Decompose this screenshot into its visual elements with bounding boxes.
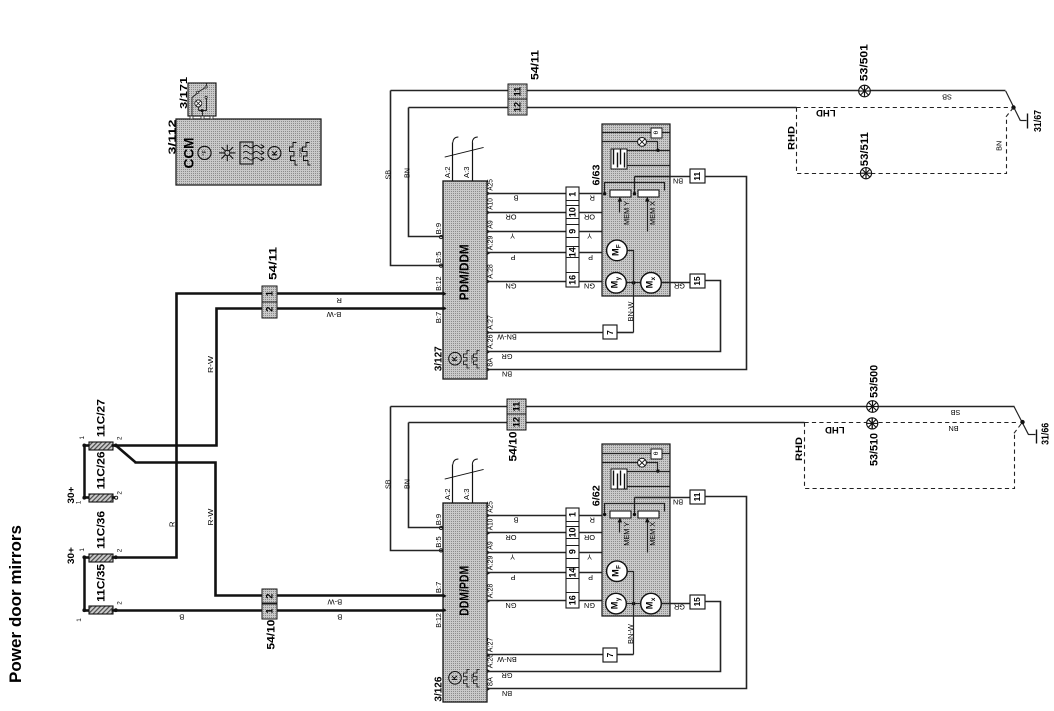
icon K diagnostic circle: [268, 147, 281, 160]
wire P : A:29 to connector strip: [487, 252, 567, 254]
motor M F (fold): [607, 561, 628, 582]
svg-text:Y: Y: [587, 232, 592, 241]
mirror assembly 6/63 box: [602, 124, 670, 296]
svg-text:1: 1: [264, 291, 274, 296]
wire BN : B:9 riser: [409, 108, 443, 237]
mirror heater element: [611, 149, 627, 169]
svg-text:K: K: [270, 150, 279, 156]
svg-text:SB: SB: [942, 93, 952, 102]
wire P : A:29 to connector strip: [487, 572, 567, 574]
wire R-W/B-W : 11C/27 pin2 diagonal: [116, 445, 136, 462]
svg-text:A:26: A:26: [486, 654, 495, 669]
svg-text:B:5: B:5: [434, 252, 443, 264]
svg-text:GN: GN: [584, 601, 595, 610]
svg-text:A10: A10: [486, 519, 495, 531]
connector 54/10 (pins 2|1): [262, 589, 277, 603]
svg-text:9: 9: [567, 229, 577, 234]
pin B:12: [443, 608, 447, 613]
svg-text:B:9: B:9: [434, 514, 443, 526]
svg-text:M: M: [645, 601, 655, 609]
svg-text:MEM X: MEM X: [648, 522, 657, 546]
svg-text:OR: OR: [584, 533, 595, 542]
R bracket over potentiometers: [605, 183, 665, 194]
svg-text:SB: SB: [383, 170, 392, 180]
svg-text:B-W: B-W: [326, 310, 342, 319]
pin A:29: [487, 251, 491, 256]
wire BN-W : M F / common return: [628, 251, 634, 333]
svg-text:A25: A25: [486, 179, 495, 191]
svg-text:A:27: A:27: [486, 315, 495, 330]
svg-text:A:26: A:26: [486, 335, 495, 350]
svg-text:y: y: [615, 276, 622, 280]
svg-text:MEM Y: MEM Y: [622, 522, 631, 546]
wire: M y to M x common: [627, 603, 641, 605]
svg-text:CAN: CAN: [470, 674, 474, 682]
svg-text:2: 2: [116, 436, 123, 440]
svg-text:BN: BN: [502, 689, 512, 698]
svg-text:A25: A25: [486, 501, 495, 513]
svg-text:31/67: 31/67: [1033, 110, 1044, 132]
wire GR : M x to pin 15: [662, 282, 690, 284]
MEM X wiper: [647, 200, 649, 232]
pin A10: [487, 210, 491, 215]
svg-text:P: P: [588, 573, 593, 582]
svg-text:SB: SB: [383, 479, 392, 489]
wire Y : strip to mirror: [579, 231, 648, 233]
svg-text:54/11: 54/11: [530, 50, 542, 80]
pin A:28: [487, 279, 491, 284]
BN centre tap: [634, 177, 636, 194]
svg-text:B:7: B:7: [434, 582, 443, 594]
svg-text:6/62: 6/62: [590, 485, 602, 506]
svg-text:GR: GR: [674, 602, 685, 611]
svg-text:B:7: B:7: [434, 312, 443, 324]
pin A:26: [487, 350, 491, 355]
fuse pin junctions: [82, 444, 86, 448]
icon CAN bus pulses: [290, 143, 298, 166]
svg-text:BN: BN: [673, 177, 683, 186]
connector 54/10 (pins 12|11): [507, 399, 526, 414]
svg-text:53/501: 53/501: [859, 44, 871, 81]
svg-text:CAN: CAN: [298, 148, 303, 157]
svg-text:R: R: [590, 193, 595, 202]
CAN bus stub pin A:2: [452, 143, 454, 181]
svg-text:PDM/DDM: PDM/DDM: [458, 244, 472, 300]
wire BN-W : pin 7 to common: [618, 332, 634, 334]
svg-text:B:5: B:5: [434, 536, 443, 548]
CAN bus stub pin A:3: [472, 143, 474, 181]
svg-text:B: B: [513, 516, 518, 525]
svg-text:BN: BN: [403, 168, 412, 178]
svg-text:2: 2: [116, 491, 123, 495]
mirror heater indicator lamp: [638, 138, 647, 147]
pin 8A: [487, 687, 491, 692]
svg-text:3/171: 3/171: [178, 77, 190, 109]
mirror pin 11: [690, 169, 705, 183]
splice 53/501: [859, 85, 871, 97]
BN centre tap: [634, 498, 636, 515]
pin A:26: [487, 669, 491, 674]
wire R-W/B-W : 11C/27 pin2 to 54/11 pin2 to PDM B:7: [116, 309, 443, 446]
thermostat box: [651, 449, 662, 459]
svg-text:A9: A9: [486, 220, 495, 229]
svg-text:12: 12: [511, 417, 521, 427]
pin A:29: [487, 571, 491, 576]
wire OR : strip to mirror: [579, 532, 620, 534]
wire bus 11C/36 pin1 - 11C/35 pin1: [83, 558, 86, 611]
mirror heater element: [611, 469, 627, 489]
svg-text:Y: Y: [510, 553, 515, 562]
wire: heater top row: [628, 150, 670, 152]
splice 53/500: [867, 401, 879, 413]
svg-text:10: 10: [567, 527, 577, 537]
svg-text:10: 10: [567, 207, 577, 217]
svg-text:30+: 30+: [66, 547, 77, 564]
wire BN : B:9 riser: [409, 423, 443, 528]
svg-text:11C/27: 11C/27: [96, 399, 108, 437]
svg-text:R: R: [590, 516, 595, 525]
svg-text:K: K: [452, 356, 459, 361]
icon temperature gauge (deg F): [198, 146, 211, 159]
wire BN : 8A loop to pin 11: [487, 497, 747, 689]
wire BN-W : pin 7 to common: [618, 654, 634, 656]
svg-text:B:12: B:12: [434, 276, 443, 291]
wire BN-W : M F / common return: [628, 572, 634, 655]
CAN bus stub pin A:3: [472, 465, 474, 503]
svg-text:A:2: A:2: [443, 489, 452, 501]
svg-text:P: P: [588, 253, 593, 262]
mirror pin 11: [690, 490, 705, 504]
wire: lamp row: [602, 141, 638, 143]
pin A9: [487, 550, 491, 555]
pin B:7: [443, 594, 447, 599]
wire BN dashed (RHD) diagonal: [1006, 108, 1014, 117]
wire B : A25 to connector strip: [487, 193, 567, 195]
MEM Y wiper: [619, 521, 621, 533]
R bracket over potentiometers: [605, 504, 665, 515]
svg-text:2: 2: [265, 594, 275, 599]
svg-text:3/127: 3/127: [433, 346, 445, 371]
mirror pin 7: [603, 325, 617, 339]
svg-text:11C/35: 11C/35: [96, 564, 108, 602]
svg-text:7: 7: [605, 330, 615, 335]
wire to ground diagonal: [1006, 91, 1021, 121]
inline connector strip (mirror connector pins 1/10/9/14/16): [566, 508, 579, 608]
svg-text:P: P: [510, 253, 515, 262]
wire SB : B:5 riser: [391, 407, 443, 551]
wire BN dashed (RHD): [805, 423, 1015, 489]
svg-text:A:28: A:28: [486, 264, 495, 279]
svg-text:14: 14: [567, 247, 577, 257]
twisted pair slash: [445, 147, 484, 157]
svg-text:A:2: A:2: [443, 167, 452, 179]
mirror pin 7: [603, 648, 617, 662]
wire GN : strip to mirror: [579, 281, 606, 283]
svg-text:BN-W: BN-W: [497, 333, 517, 342]
pin B:9: [439, 526, 442, 529]
svg-text:GR: GR: [502, 671, 513, 680]
wire P : strip to mirror: [579, 572, 607, 574]
svg-text:11: 11: [692, 492, 702, 501]
svg-text:B-W: B-W: [327, 598, 343, 607]
wire: thermostat row: [602, 453, 652, 455]
svg-text:54/11: 54/11: [267, 247, 279, 280]
wire B : 11C/35 pin2 to 54/10 pin1 to DDM B:12: [116, 609, 443, 612]
svg-text:GN: GN: [584, 282, 595, 291]
motor M y (vertical): [606, 273, 627, 294]
wire OR : A10 to connector strip: [487, 212, 567, 214]
svg-text:15: 15: [692, 597, 702, 607]
wire OR : A10 to connector strip: [487, 532, 567, 534]
pin A:27: [487, 330, 491, 335]
connector 54/11 (pins 2|1): [262, 286, 277, 302]
wire Y : A9 to connector strip: [487, 552, 567, 554]
wire BN-W : A:27 to pin 7: [487, 654, 604, 656]
svg-text:RHD: RHD: [794, 437, 805, 461]
svg-text:31/66: 31/66: [1040, 423, 1051, 445]
pin A25: [487, 513, 491, 518]
MEM Y potentiometer: [610, 511, 631, 518]
icon heated rear window: [240, 142, 253, 164]
wire Y : strip to mirror: [579, 552, 648, 554]
motor M x (horizontal): [641, 593, 662, 614]
svg-text:54/10: 54/10: [508, 432, 520, 462]
mirror pin 15: [690, 274, 705, 288]
svg-text:7: 7: [605, 652, 615, 657]
svg-text:SB: SB: [951, 408, 961, 417]
svg-text:DDM/PDM: DDM/PDM: [458, 566, 472, 616]
svg-text:11C/36: 11C/36: [96, 511, 108, 549]
svg-text:2: 2: [264, 307, 274, 312]
pin A9: [487, 229, 491, 234]
svg-text:30+: 30+: [66, 486, 77, 503]
svg-text:11: 11: [513, 87, 523, 97]
connector 54/11 (pins 12|11): [508, 84, 527, 99]
svg-text:3/112: 3/112: [166, 119, 178, 154]
module PDM/DDM 3/127 box: [443, 181, 487, 379]
svg-text:Y: Y: [510, 232, 515, 241]
fuse 11C/36: [89, 554, 113, 562]
svg-text:2: 2: [116, 548, 123, 552]
pin B:7: [443, 306, 447, 311]
svg-text:2: 2: [116, 601, 123, 605]
svg-text:CAN: CAN: [470, 354, 474, 362]
MEM X wiper: [647, 521, 649, 553]
wire: lamp row: [602, 462, 638, 464]
wire BN trunk: [409, 107, 797, 109]
wire: heater bottom row: [628, 486, 670, 488]
module DDM/PDM 3/126 box: [443, 503, 487, 702]
svg-text:A:3: A:3: [462, 489, 471, 501]
svg-text:16: 16: [567, 595, 577, 605]
junction at ground: [1020, 420, 1024, 424]
wire SB trunk: [391, 406, 1015, 408]
svg-text:BN-W: BN-W: [497, 655, 517, 664]
svg-text:RHD: RHD: [786, 126, 797, 150]
motor M x (horizontal): [641, 273, 662, 294]
wire BN dashed (RHD): [797, 108, 1007, 174]
svg-text:9: 9: [567, 549, 577, 554]
svg-text:x: x: [650, 597, 657, 601]
svg-text:53/510: 53/510: [869, 433, 881, 466]
wire BN dashed (LHD): [797, 107, 1011, 109]
wire BN : 8A loop to pin 11: [487, 177, 747, 370]
module CCM 3/112 box: [176, 119, 321, 185]
wire GN : strip to mirror: [579, 600, 606, 602]
svg-text:θ: θ: [653, 130, 660, 134]
motor M F (fold): [607, 240, 628, 261]
svg-text:θ: θ: [653, 451, 660, 455]
svg-text:K: K: [452, 675, 459, 680]
svg-text:A:3: A:3: [462, 167, 471, 179]
icon sun (auto climate): [219, 145, 235, 161]
wire BN : centre tap to pin 11: [635, 497, 690, 499]
svg-text:1: 1: [79, 548, 86, 552]
MEM X potentiometer: [638, 511, 659, 518]
svg-text:53/500: 53/500: [869, 365, 881, 398]
ground 31/67: [1027, 114, 1029, 129]
svg-text:OR: OR: [506, 213, 517, 222]
wire BN-W : A:27 to pin 7: [487, 332, 604, 334]
svg-text:12: 12: [513, 102, 523, 112]
wire SB : B:5 riser: [391, 91, 443, 266]
svg-text:8A: 8A: [486, 677, 495, 686]
wire bus 11C/27 pin1 - 11C/26 pin1: [83, 446, 86, 498]
svg-text:°F: °F: [202, 150, 208, 156]
svg-text:y: y: [615, 597, 622, 601]
svg-text:A9: A9: [486, 541, 495, 550]
svg-text:16: 16: [567, 275, 577, 285]
svg-text:A:29: A:29: [486, 556, 495, 571]
svg-text:B: B: [337, 613, 342, 622]
svg-text:6/63: 6/63: [590, 164, 602, 185]
pin B:5: [439, 264, 442, 267]
pin A:28: [487, 599, 491, 604]
svg-text:A10: A10: [486, 198, 495, 210]
svg-text:A:28: A:28: [486, 584, 495, 599]
fuse 11C/26: [89, 494, 113, 502]
splice 53/511: [860, 168, 871, 179]
wire BN dashed (RHD) diagonal: [1014, 422, 1023, 433]
mirror heater indicator lamp: [638, 458, 647, 467]
MEM X potentiometer: [638, 190, 659, 197]
wire B : A25 to connector strip: [487, 515, 567, 517]
svg-text:R-W: R-W: [206, 355, 215, 373]
wire GN : A:28 to connector strip: [487, 600, 567, 602]
svg-text:M: M: [645, 280, 655, 288]
svg-text:BN: BN: [673, 497, 683, 506]
wire GN : A:28 to connector strip: [487, 281, 567, 283]
svg-text:BN-W: BN-W: [626, 301, 635, 321]
junction at ground: [1011, 105, 1015, 109]
svg-text:BN: BN: [403, 479, 412, 489]
twisted pair slash: [445, 469, 484, 479]
svg-text:1: 1: [265, 608, 275, 613]
svg-text:BN: BN: [502, 370, 512, 379]
inline connector strip (mirror connector pins 1/10/9/14/16): [566, 187, 579, 287]
pin B:9: [439, 235, 442, 238]
svg-text:LHD: LHD: [816, 107, 836, 118]
svg-text:GN: GN: [506, 282, 517, 291]
svg-text:Power door mirrors: Power door mirrors: [7, 525, 25, 683]
svg-text:GR: GR: [502, 352, 513, 361]
svg-text:14: 14: [567, 568, 577, 578]
svg-text:A:29: A:29: [486, 236, 495, 251]
module K/CAN icon: [449, 352, 462, 365]
wire BN trunk: [409, 422, 805, 424]
svg-text:1: 1: [76, 618, 83, 622]
svg-text:CCM: CCM: [182, 138, 197, 169]
wire R-W/B-W : to 54/10 pin2 to DDM B:7: [135, 463, 443, 596]
MEM Y wiper: [619, 200, 621, 213]
wire: heater bottom row: [628, 165, 670, 167]
motor M y (vertical): [606, 593, 627, 614]
svg-text:F: F: [616, 565, 623, 569]
ground 31/66: [1036, 430, 1038, 444]
fuse 11C/26 pin 2 open end: [115, 496, 118, 499]
fuse 11C/27: [89, 442, 113, 450]
svg-text:Y: Y: [587, 553, 592, 562]
svg-text:B: B: [179, 612, 184, 621]
3/171 pins: [190, 116, 193, 119]
svg-text:GR: GR: [674, 282, 685, 291]
wire R : 11C/36 pin2 to 54/11 pin1 to PDM B:12: [116, 294, 443, 558]
svg-text:LHD: LHD: [825, 424, 845, 435]
wire BN dashed (LHD): [805, 422, 1019, 424]
svg-text:F: F: [616, 244, 623, 248]
svg-text:M: M: [610, 280, 620, 288]
mirror assembly 6/62 box: [602, 444, 670, 616]
pin A:27: [487, 653, 491, 658]
wire GR : M x to pin 15: [662, 603, 690, 605]
wire GR : A:26 loop to pin 15: [487, 602, 721, 672]
svg-text:B:12: B:12: [434, 613, 443, 628]
svg-text:3/126: 3/126: [433, 676, 445, 701]
svg-text:OR: OR: [506, 533, 517, 542]
svg-text:M: M: [610, 569, 620, 577]
wire to ground diagonal: [1014, 407, 1029, 435]
svg-text:BN: BN: [948, 424, 958, 433]
wire R : strip to mirror: [579, 193, 605, 195]
svg-text:OR: OR: [584, 213, 595, 222]
svg-text:MEM X: MEM X: [648, 201, 657, 225]
3/171 indicator lamp: [195, 100, 202, 107]
wire BN : centre tap to pin 11: [635, 176, 690, 178]
wire P : strip to mirror: [579, 252, 607, 254]
MEM Y potentiometer: [610, 190, 631, 197]
svg-text:1: 1: [567, 512, 577, 517]
svg-text:11C/26: 11C/26: [96, 451, 108, 489]
pin B:12: [443, 291, 447, 296]
svg-text:15: 15: [692, 276, 702, 286]
fuse 11C/35: [89, 606, 113, 614]
svg-text:B: B: [513, 193, 518, 202]
wire: heater top row: [628, 471, 670, 473]
wire GR : A:26 loop to pin 15: [487, 281, 721, 352]
wire R : strip to mirror: [579, 515, 605, 517]
thermostat box: [651, 128, 662, 138]
wire: thermostat row: [602, 132, 652, 134]
svg-text:R: R: [336, 296, 342, 305]
splice 53/510: [867, 418, 878, 429]
pin B:5: [439, 549, 442, 552]
module K/CAN icon: [449, 672, 462, 685]
svg-text:P: P: [510, 573, 515, 582]
svg-text:A:27: A:27: [486, 638, 495, 653]
svg-text:BN-W: BN-W: [626, 624, 635, 644]
wire: M y to M x common: [627, 282, 641, 284]
3/171 internal circuit: [192, 93, 198, 116]
